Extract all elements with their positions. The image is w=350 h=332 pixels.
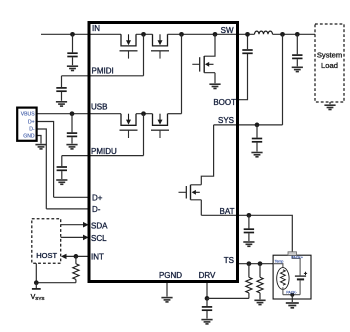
- svg-text:SYS: SYS: [218, 116, 234, 125]
- capacitor C_OUT: [292, 34, 302, 66]
- svg-text:PACK+: PACK+: [291, 255, 303, 259]
- svg-text:HOST: HOST: [36, 251, 57, 260]
- ground (C_USB): [66, 145, 77, 149]
- transistor Q3 USB pass FET: [120, 114, 138, 138]
- power rail VSYS symbol: [32, 283, 41, 289]
- wire IN input net: [41, 33, 121, 35]
- svg-text:PACK-: PACK-: [286, 291, 298, 295]
- wire PMIDU vertical: [143, 114, 145, 156]
- wire PMID common rail to SW: [168, 33, 255, 35]
- transistor Q6 BATFET: [179, 185, 202, 216]
- svg-text:GND: GND: [23, 133, 35, 139]
- resistor R_TS2: [257, 264, 263, 300]
- arrowhead SCL into IC: [83, 235, 89, 241]
- battery pack box: [273, 255, 311, 299]
- transistor Q4 USB pass FET: [151, 114, 169, 138]
- HOST dashed box: [32, 219, 61, 263]
- arrowhead INT to host: [61, 254, 67, 259]
- node SW boot junction: [245, 32, 250, 37]
- svg-text:PMIDU: PMIDU: [91, 147, 117, 156]
- node SW FET junction: [213, 32, 218, 37]
- svg-text:D-: D-: [29, 126, 35, 132]
- node PMIDI junction: [141, 32, 146, 37]
- ground (C_DRV): [201, 320, 212, 324]
- svg-text:BAT: BAT: [220, 207, 235, 216]
- capacitor C_SYS: [252, 125, 262, 152]
- inductor L1: [255, 31, 273, 34]
- wire pack internal BAT to cell: [292, 255, 300, 275]
- node BAT cap junction: [247, 213, 252, 218]
- transistor Q5 low-side FET: [192, 34, 215, 83]
- wire PMID to USB FET output: [181, 34, 183, 113]
- resistor R_INT pull-up: [73, 256, 79, 282]
- wire Q3-Q4 link (PMIDU node): [136, 113, 153, 115]
- ground (C_BAT): [243, 242, 254, 246]
- arrowhead SDA into IC: [83, 222, 89, 228]
- resistor R_TS1: [246, 264, 252, 299]
- svg-text:INT: INT: [91, 253, 104, 262]
- wire D- net: [37, 129, 89, 209]
- svg-text:VSYS: VSYS: [31, 294, 45, 301]
- node PMIDU junction: [141, 111, 146, 116]
- label + battery polarity: [304, 272, 307, 275]
- ground (C_OUT): [292, 67, 303, 71]
- wire PMIDU pin net: [62, 155, 144, 157]
- svg-text:PGND: PGND: [159, 271, 182, 280]
- wire INT net: [66, 255, 88, 257]
- capacitor C_PMIDI: [56, 76, 66, 101]
- ground (C_SYS): [251, 153, 262, 157]
- thermistor RT1: [277, 268, 289, 295]
- capacitor C_USB: [67, 114, 77, 144]
- System Load dashed box: [315, 24, 344, 102]
- ground (PGND): [161, 298, 172, 302]
- node USB cap junction: [70, 111, 75, 116]
- wire D+ net: [37, 122, 89, 198]
- ground (C_PMIDU): [56, 180, 67, 184]
- wire PMIDI vertical: [143, 34, 145, 76]
- node PMID junction: [179, 32, 184, 37]
- wire USB FET output: [168, 113, 182, 115]
- wire SYS output net: [273, 33, 316, 35]
- svg-text:PMIDI: PMIDI: [92, 66, 114, 75]
- wire SDA net: [61, 224, 84, 226]
- battery cell BT1: [295, 276, 306, 295]
- ground (R_TS2): [254, 300, 265, 304]
- node DRV junction: [205, 296, 210, 301]
- wire BOOT net: [238, 54, 248, 100]
- wire PGND pin: [166, 281, 168, 297]
- wire BAT net: [201, 215, 292, 252]
- svg-text:BOOT: BOOT: [213, 98, 236, 107]
- node INT junction: [74, 254, 79, 259]
- svg-text:System: System: [317, 51, 342, 60]
- wire DRV pin: [206, 281, 208, 298]
- transistor Q2 input pass FET: [151, 34, 169, 58]
- ground (System Load): [324, 105, 335, 109]
- capacitor C_BOOT bootstrap: [242, 34, 252, 53]
- svg-text:Load: Load: [321, 61, 338, 70]
- ground (VBUS connector): [35, 145, 46, 149]
- node output cap junction: [295, 32, 300, 37]
- IC U1 body: [89, 23, 238, 282]
- node VSYS rail junction: [34, 280, 39, 285]
- svg-text:IN: IN: [92, 24, 100, 33]
- svg-text:SCL: SCL: [91, 234, 107, 243]
- capacitor C_PMIDU: [57, 156, 67, 179]
- wire TS net: [238, 263, 273, 265]
- svg-text:SDA: SDA: [91, 221, 108, 230]
- transistor Q1 input pass FET: [120, 34, 138, 58]
- node IN cap junction: [70, 32, 75, 37]
- svg-text:USB: USB: [91, 102, 107, 111]
- node SYS tap junction: [280, 32, 285, 37]
- capacitor CIN: [67, 34, 77, 65]
- svg-text:DRV: DRV: [199, 271, 216, 280]
- wire TS into pack: [273, 264, 283, 268]
- wire SYS pin net: [214, 124, 283, 126]
- connector tab PACK+: [288, 252, 297, 256]
- wire PACK- to ground: [291, 295, 293, 302]
- wire VBUS GND: [37, 136, 41, 144]
- node TS junction 2: [258, 261, 263, 266]
- ground (C_PMIDI): [56, 102, 67, 106]
- wire PMIDI pin net: [62, 75, 144, 77]
- wire R_INT to VSYS: [36, 282, 76, 284]
- capacitor C_BAT: [244, 215, 254, 241]
- wire Q1-Q2 link (PMIDI node): [136, 33, 153, 35]
- ground (Q5 source): [209, 84, 220, 88]
- svg-text:VBUS: VBUS: [21, 111, 35, 117]
- svg-text:D+: D+: [92, 194, 103, 203]
- connector J1 VBUS box: [17, 108, 36, 141]
- capacitor C_DRV: [202, 298, 212, 318]
- wire SYS internal to BATFET: [201, 125, 213, 185]
- node SYS cap junction: [255, 123, 260, 128]
- svg-text:SW: SW: [221, 26, 234, 35]
- svg-text:Temp: Temp: [275, 259, 284, 263]
- wire pack bottom PACK-: [283, 294, 300, 296]
- wire USB net: [37, 113, 121, 115]
- wire HOST to VSYS rail: [35, 263, 37, 283]
- wire DRV to R_TS1: [207, 297, 249, 299]
- node TS junction 1: [247, 261, 252, 266]
- svg-text:D+: D+: [28, 119, 35, 125]
- wire SCL net: [61, 236, 84, 238]
- ground (battery pack): [286, 303, 299, 308]
- svg-text:TS: TS: [224, 256, 234, 265]
- wire SYS tap vertical: [282, 34, 284, 125]
- wire System Load ground stub: [329, 102, 331, 104]
- node PACK- junction: [290, 293, 294, 297]
- ground (CIN): [67, 66, 78, 70]
- svg-text:D-: D-: [92, 205, 101, 214]
